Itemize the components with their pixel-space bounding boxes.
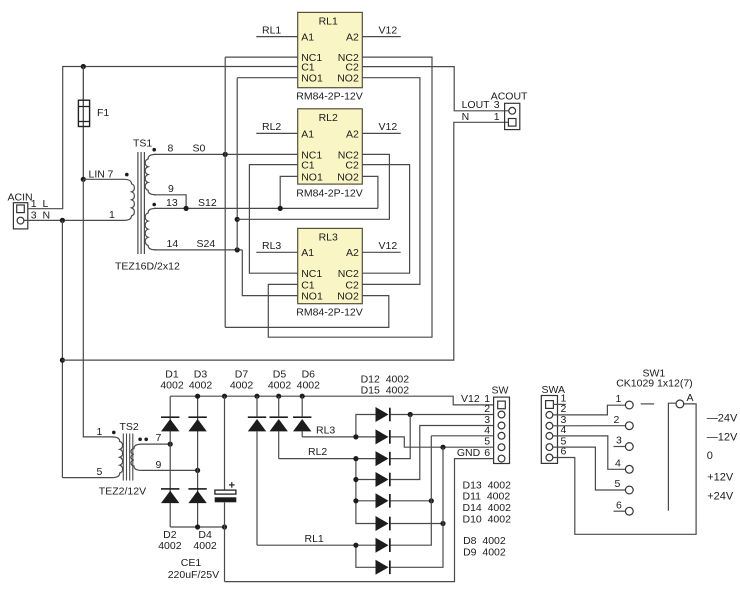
diode D2 1N4002 [161,488,179,503]
wire RL1 coil A1 stub [256,36,297,38]
wire RL1 NO1 vertical down to S24 [236,78,238,250]
SW1 contact 6 [625,507,633,515]
junction LIN node: fuse / TS1 pin7 / TS2 pin1 [81,177,86,182]
junction RL2 NO1 / S12 [278,206,283,211]
wire SWA pin3 to SW1 contact2 [553,425,626,427]
diode D6 1N4002 [293,416,311,431]
relay RL3 RM84-2P-12V [296,228,363,318]
svg-text:3: 3 [494,99,500,111]
svg-text:NC1: NC1 [301,268,322,280]
svg-text:14: 14 [167,238,179,250]
svg-text:A1: A1 [301,32,314,44]
svg-text:NO1: NO1 [301,171,323,183]
svg-text:NO1: NO1 [301,291,323,303]
wire RL3 coil A2 stub to V12 [362,251,400,253]
svg-text:RL1: RL1 [262,24,281,36]
wire RL2 NO2 down to S12 [362,176,378,208]
svg-text:7: 7 [156,432,162,444]
svg-text:7: 7 [108,168,114,180]
wire SWA pin6 loop to SW1 wiper A [553,404,696,534]
wire D1 D2 column [169,396,171,527]
svg-text:ACIN: ACIN [8,191,33,203]
svg-text:C1: C1 [301,160,315,172]
svg-text:D6: D6 [302,368,316,380]
junction RL1 / bus C [353,543,358,548]
SW1 contact 2 [625,422,633,430]
wire row5 out [390,500,431,502]
polarity dot TS2 secondary b [144,438,148,442]
wire branch to RL2 NC2 [237,154,389,219]
wire D5 bottom down [278,431,280,458]
svg-text:4002: 4002 [297,380,321,392]
svg-text:TS2: TS2 [120,421,139,433]
svg-text:A2: A2 [346,247,359,259]
capacitor CE1 220uF/25V polarized [215,482,237,502]
svg-text:RL2: RL2 [308,446,327,458]
svg-text:CK1029 1x12(7): CK1029 1x12(7) [616,378,692,390]
diode D9 1N4002 matrix [376,560,391,575]
svg-text:L: L [43,198,49,210]
svg-text:CE1: CE1 [181,557,202,569]
wire negative bottom bus [170,526,224,528]
svg-text:TS1: TS1 [133,138,152,150]
svg-text:D5: D5 [273,368,287,380]
SW1 contact 4 [625,465,633,473]
wire positive top bus V12 [170,396,493,405]
diode D15 1N4002 matrix [376,429,391,444]
svg-text:RL2: RL2 [319,112,338,124]
wire RL3 coil A1 stub [256,251,297,253]
wire to SW pin4 [431,435,493,437]
svg-text:D9 4002: D9 4002 [463,546,506,558]
polarity dot TS2 primary [112,431,116,435]
wire row6 up to pin5 line [442,447,444,523]
wire SWA pin1 stub [553,403,566,405]
svg-text:V12: V12 [461,393,480,405]
wire LOUT: RL1 C2 to ACOUT pin3 [362,67,509,111]
svg-text:C1: C1 [301,279,315,291]
wire TS2 pin7 to bridge D1-D2 [142,443,171,445]
svg-text:D7: D7 [235,368,249,380]
svg-text:6: 6 [484,447,490,459]
polarity dot TS1 secondary B [152,203,156,207]
connector SW [494,397,510,463]
wire RL1 NC1 [225,56,298,58]
wire D5 top [278,396,280,416]
transformer TS2 secondary winding pins 7-9 [131,444,142,470]
svg-text:4002: 4002 [193,540,217,552]
diode D10 1N4002 matrix [376,516,391,531]
wire matrix anode bus segment A (RL3) [356,415,376,437]
svg-text:5: 5 [97,466,103,478]
svg-text:D4: D4 [198,529,212,541]
svg-text:S12: S12 [198,197,217,209]
SW1 contact 3 [625,443,633,451]
svg-text:8: 8 [168,143,174,155]
junction RL1 NO1 vertical / RL2 NC2 branch [235,217,240,222]
svg-text:4002: 4002 [268,380,292,392]
wire SW1 contact6 stub [614,510,626,512]
svg-text:S24: S24 [197,238,216,250]
wire LIN down to TS2 pin1 [83,179,112,437]
relay RL2 RM84-2P-12V [296,109,363,200]
svg-text:SW: SW [492,384,509,396]
svg-text:4: 4 [484,424,490,436]
transformer TS2 core [123,434,133,481]
wire anode row5 [356,500,376,502]
wire row4 to SW pin3 [390,426,493,480]
junction S24 / RL1 NO1 vertical [235,247,240,252]
svg-text:GND: GND [457,447,481,459]
svg-text:13: 13 [166,197,178,209]
wire RL3 C1 loop to RL1 NC2 [268,57,432,337]
wire CE1 column to ground rail [224,527,226,582]
svg-text:D1: D1 [165,368,179,380]
svg-text:3: 3 [616,435,622,447]
svg-text:3: 3 [31,209,37,221]
wire S0: TS1 pin8 to RL2 NC1 [154,153,298,155]
svg-text:RL1: RL1 [305,533,324,545]
diode D7 1N4002 [248,416,266,431]
wire D7 top [256,396,258,416]
junction bottom bus / CE1 [222,524,227,529]
wire SW1 contact3 stub [614,446,626,448]
svg-text:—24V: —24V [707,412,738,424]
svg-text:D8 4002: D8 4002 [463,535,506,547]
svg-text:1: 1 [109,209,115,221]
transformer TS1 core [138,152,145,254]
svg-text:S0: S0 [193,143,206,155]
SW1 contact 1 [625,401,633,409]
svg-text:—12V: —12V [707,431,738,443]
svg-text:6: 6 [616,499,622,511]
wire CE1 column bottom [224,502,226,527]
svg-text:D3: D3 [194,368,208,380]
junction N branch down [60,218,65,223]
svg-text:+24V: +24V [707,490,734,502]
svg-text:NO2: NO2 [337,291,359,303]
wire S0 vertical: RL1 NC1 down [224,57,226,327]
diode D11 1N4002 matrix [376,472,391,487]
svg-text:V12: V12 [379,121,398,133]
wire TS1 pin9 to S12 [154,195,186,209]
wire matrix anode bus segment B (RL2) [356,459,376,524]
svg-text:NC2: NC2 [338,268,359,280]
junction bus B row4 [353,477,358,482]
fuse F1 [78,67,89,180]
svg-text:NO2: NO2 [337,171,359,183]
wire D6 top [301,396,303,416]
wire D3 D4 column [197,396,199,527]
svg-text:D11 4002: D11 4002 [463,491,511,503]
diode D4 1N4002 [188,488,206,503]
wire N bus right and up to ACOUT pin1 [62,122,508,360]
svg-text:RL1: RL1 [319,16,338,28]
svg-text:D2: D2 [163,529,177,541]
svg-text:C2: C2 [345,279,359,291]
svg-text:NO2: NO2 [337,73,359,85]
svg-text:D12 4002: D12 4002 [361,373,410,385]
svg-text:4002: 4002 [189,380,213,392]
junction pin5 line / row6-8 tie [440,445,445,450]
svg-text:A2: A2 [346,128,359,140]
wire anode row4 [356,479,376,481]
wire row6 out [390,523,443,525]
svg-text:4002: 4002 [160,380,184,392]
wire RL1 net: D7 to matrix [257,544,356,546]
wire D7 bottom down [256,431,258,545]
svg-text:V12: V12 [379,240,398,252]
connector ACIN [13,203,27,229]
junction L line / fuse F1 top [81,64,86,69]
diode D13 1N4002 matrix [376,451,391,466]
transformer TS1 secondary winding B pins 13-14 [145,208,156,250]
svg-text:1: 1 [97,426,103,438]
relay RL1 RM84-2P-12V [296,12,363,102]
svg-text:5: 5 [484,436,490,448]
wire row7 up to row5 net [390,501,431,545]
junction row6 / row8 tie [440,521,445,526]
wire N vertical down to TS2 pin5 [61,220,63,477]
svg-text:D15 4002: D15 4002 [361,385,410,397]
wire RL2 net: D5 to matrix [279,458,356,460]
junction RL3 / bus A [353,434,358,439]
wire RL1 coil A2 stub to V12 [362,36,400,38]
wire TS2 pin9 to bridge D3-D4 [142,469,198,471]
junction bus B row5 [353,498,358,503]
svg-text:+12V: +12V [707,472,734,484]
svg-text:1: 1 [494,111,500,123]
svg-text:4: 4 [615,458,621,470]
svg-text:D10 4002: D10 4002 [463,513,512,525]
svg-text:A1: A1 [301,247,314,259]
svg-text:TEZ2/12V: TEZ2/12V [99,485,146,497]
svg-text:RL3: RL3 [316,424,335,436]
diode D8 1N4002 matrix [376,538,391,553]
svg-text:A: A [687,392,694,404]
svg-text:A2: A2 [346,32,359,44]
svg-text:RL2: RL2 [262,121,281,133]
wire N to TS2 pin5 [62,477,112,479]
junction top bus / D3 [195,394,200,399]
svg-text:1: 1 [616,393,622,405]
wire RL2 NO1 down to S12 [280,176,298,208]
svg-text:C2: C2 [345,160,359,172]
transformer TS1 primary winding pins 7-1 [124,179,135,220]
junction S0 / NC1 vertical [223,152,228,157]
svg-text:1: 1 [31,198,37,210]
junction N bus to ACOUT [60,358,65,363]
diode D1 1N4002 [161,416,179,431]
junction pin9/S12 [184,206,189,211]
transformer TS2 primary winding pins 1-5 [112,437,123,478]
wire RL2 C2 to RL3 NC2 [362,165,409,274]
wiper link dash [641,403,655,405]
svg-text:N: N [43,209,51,221]
wire D6 bottom down [301,431,303,437]
junction row5 / row7 tie [429,498,434,503]
wire RL3 net: D6 to matrix [302,436,356,438]
svg-text:RM84-2P-12V: RM84-2P-12V [296,307,363,319]
svg-text:2: 2 [614,414,620,426]
wiper arm line [668,403,675,511]
transformer TS1 secondary winding A pins 8-9 [145,154,156,194]
junction bottom bus / D4 [195,524,200,529]
diode D5 1N4002 [270,416,288,431]
svg-text:9: 9 [156,459,162,471]
junction row1 / row3 tie [408,412,413,417]
svg-text:RM84-2P-12V: RM84-2P-12V [296,188,363,200]
junction top bus / D5 [276,394,281,399]
wire RL2 coil A1 stub [256,132,297,134]
svg-text:N: N [462,111,470,123]
connector SWA [541,396,557,464]
wire CE1 column top [224,396,226,490]
wire matrix row1 to SW pin2 [390,414,493,416]
wire row8 up to row6 net [390,524,443,568]
svg-text:LOUT: LOUT [462,99,491,111]
wire row2 to SW pin5 [390,437,493,447]
wire S12: TS1 pin13 across [154,207,378,209]
junction top bus / D7 [254,394,259,399]
junction pin7 / D1 D2 column [168,442,173,447]
svg-text:RL3: RL3 [319,232,338,244]
wire SWA pin2 to SW1 contact1 [553,405,625,415]
wire N: ACIN pin3 to TS1 pin1 [24,219,124,221]
wire row3 up to row1 net [390,415,410,459]
svg-text:LIN: LIN [89,168,105,180]
wire S24 down to RL3 NO1 [242,250,297,296]
wire S0 loop to RL3 NO2 [225,296,389,328]
wire row5 up to pin4 [430,436,432,501]
svg-text:D14 4002: D14 4002 [463,502,512,514]
polarity dot TS1 primary [125,173,129,177]
svg-text:RL3: RL3 [262,240,281,252]
SW1 wiper contact A [676,400,684,408]
junction pin9 / D3 D4 column [195,468,200,473]
svg-text:RM84-2P-12V: RM84-2P-12V [296,90,363,102]
wire SWA pin4 to SW1 contact4 [553,436,626,469]
junction top bus / CE1 [222,394,227,399]
wire S24: TS1 pin14 [154,249,242,251]
svg-text:5: 5 [615,478,621,490]
svg-text:NO1: NO1 [301,73,323,85]
junction RL2 / bus B [353,456,358,461]
junction top bus / D6 [300,394,305,399]
svg-text:4002: 4002 [230,380,254,392]
diode D3 1N4002 [188,416,206,431]
svg-text:0: 0 [707,450,713,462]
wire matrix anode bus segment C (RL1) [356,545,376,567]
svg-text:TEZ16D/2x12: TEZ16D/2x12 [115,260,180,272]
connector ACOUT [505,103,520,129]
wire L: ACIN pin1 up to RL1 C1 [28,67,298,209]
svg-text:D13 4002: D13 4002 [463,479,512,491]
svg-text:F1: F1 [97,107,109,119]
polarity dot TS2 secondary a [138,438,142,442]
wire GND: SW pin6 to ground rail [225,459,494,582]
wire RL2 C1 to RL3 NC1 [249,165,297,274]
svg-text:A1: A1 [301,128,314,140]
polarity dot TS1 secondary A [152,148,156,152]
wire LIN to TS1 pin7 [83,178,124,180]
wire RL1 NO1 [237,77,298,79]
wire SWA pin5 to SW1 contact5 [553,447,626,490]
svg-text:9: 9 [168,183,174,195]
SW1 contact 5 [625,486,633,494]
wire RL2 coil A2 stub to V12 [362,132,400,134]
wire RL1 NO2 to RL3 C2 [362,78,420,285]
svg-text:V12: V12 [379,24,398,36]
svg-text:4002: 4002 [158,540,182,552]
svg-text:220uF/25V: 220uF/25V [168,569,219,581]
diode D12 1N4002 matrix [376,407,391,422]
diode D14 1N4002 matrix [376,493,391,508]
